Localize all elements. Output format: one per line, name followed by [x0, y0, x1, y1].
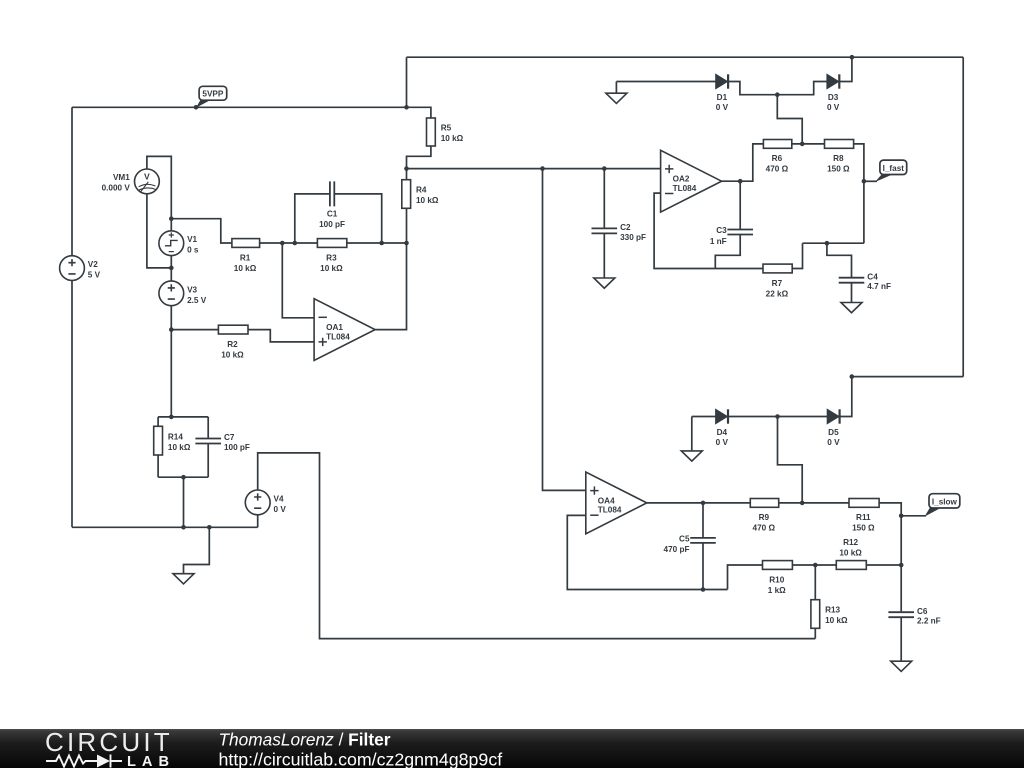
- wire 5VPP net: left horizontal run at y=107: [72, 106, 407, 108]
- wire D1 anode from ground: [616, 81, 715, 83]
- wire C3 top stub from OA2 output node: [739, 181, 741, 229]
- svg-text:10 kΩ: 10 kΩ: [221, 350, 244, 359]
- svg-text:470 Ω: 470 Ω: [766, 165, 789, 174]
- svg-text:470 Ω: 470 Ω: [753, 524, 776, 533]
- svg-text:R5: R5: [441, 124, 452, 133]
- junction R6/R8 node: [800, 142, 805, 147]
- voltage source V2 5 V: [60, 256, 101, 281]
- wire V3 node rail down to R14/C7 block: [170, 330, 172, 417]
- svg-text:R8: R8: [833, 154, 844, 163]
- svg-text:V1: V1: [187, 235, 197, 244]
- junction R14/C7 block bottom: [181, 475, 186, 480]
- resistor R12 10 kΩ: [836, 538, 866, 569]
- svg-text:D1: D1: [717, 93, 728, 102]
- junction node A / C2 branch: [602, 166, 607, 171]
- junction C4 branch on R7 node line: [825, 241, 830, 246]
- svg-text:V4: V4: [274, 494, 284, 503]
- wire C6 bottom stub to ground: [900, 618, 902, 661]
- svg-text:R3: R3: [326, 253, 337, 262]
- svg-text:0 V: 0 V: [274, 505, 287, 514]
- svg-text:10 kΩ: 10 kΩ: [416, 196, 439, 205]
- svg-text:C2: C2: [620, 223, 631, 232]
- svg-text:I_fast: I_fast: [883, 164, 905, 173]
- ground at D4 anode: [681, 451, 702, 461]
- junction node A at R5 bottom / R4 top: [404, 166, 409, 171]
- diode D1 0 V: [716, 74, 729, 112]
- wire diode node feed down to R6/R8 junction: [777, 95, 802, 144]
- svg-text:10 kΩ: 10 kΩ: [825, 616, 848, 625]
- junction OA2 output / C3: [738, 179, 743, 184]
- wire V1 top stub: [170, 219, 172, 231]
- junction R10 / R12 / R13 node: [813, 563, 818, 568]
- op-amp OA1 TL084: [314, 299, 375, 361]
- junction C1 right / R3 output: [379, 241, 384, 246]
- svg-text:C7: C7: [224, 433, 235, 442]
- resistor R14 10 kΩ: [154, 426, 191, 455]
- svg-text:TL084: TL084: [326, 332, 350, 341]
- capacitor C2 330 pF: [592, 223, 647, 242]
- junction OA4 output / C5: [701, 501, 706, 506]
- wire C4 branch jog from node line: [827, 243, 852, 277]
- svg-text:VM1: VM1: [113, 173, 130, 182]
- svg-text:4.7 nF: 4.7 nF: [867, 282, 891, 291]
- voltage source V1 0 s (step): [159, 231, 199, 256]
- wire branch from top rail down to D3 cathode: [840, 57, 852, 81]
- svg-text:R9: R9: [759, 513, 770, 522]
- wire R1 output to R3 input: [260, 242, 318, 244]
- svg-text:10 kΩ: 10 kΩ: [168, 443, 191, 452]
- wire C5 top stub from OA4 output node: [702, 503, 704, 538]
- wire V3 bottom stub to R2 node: [170, 306, 172, 330]
- svg-text:0 V: 0 V: [716, 103, 729, 112]
- junction V3 bottom / R2 node: [169, 327, 174, 332]
- junction C5 bottom on feedback loop: [701, 587, 706, 592]
- CircuitLab logo resistor-diode glyph: [46, 755, 122, 768]
- resistor R11 150 Ω: [849, 499, 879, 533]
- wire R14 top stub: [157, 417, 159, 426]
- footer bar: [0, 729, 1024, 768]
- svg-text:V3: V3: [187, 285, 197, 294]
- svg-text:470 pF: 470 pF: [664, 545, 690, 554]
- svg-text:150 Ω: 150 Ω: [852, 524, 875, 533]
- wire C1 left branch up from R1/R3 node: [295, 194, 330, 243]
- wire OA2 output to R6 input: [722, 144, 764, 181]
- junction R1 output / OA1 inverting branch: [280, 241, 285, 246]
- svg-text:5VPP: 5VPP: [202, 90, 223, 99]
- svg-text:R2: R2: [227, 340, 238, 349]
- svg-text:1 kΩ: 1 kΩ: [768, 586, 786, 595]
- wire C3 bottom jog to feedback loop: [715, 234, 740, 268]
- resistor R3 10 kΩ: [317, 239, 346, 273]
- ground on V2 rail below R14/C7 block: [173, 574, 194, 584]
- wire I_slow tail stub: [901, 515, 926, 517]
- junction 5VPP tag point: [194, 105, 199, 110]
- op-amp OA2 TL084: [661, 150, 722, 212]
- svg-text:http://circuitlab.com/cz2gnm4g: http://circuitlab.com/cz2gnm4g8p9cf: [219, 750, 503, 768]
- wire V3 top stub: [170, 268, 172, 281]
- diode D4 0 V: [716, 409, 729, 447]
- svg-text:V: V: [144, 172, 150, 182]
- capacitor C5 470 pF: [664, 535, 716, 555]
- svg-text:R12: R12: [843, 538, 858, 547]
- node I_slow net flag: [925, 494, 960, 517]
- wire R7 output jog up to C4 node line: [792, 243, 802, 268]
- wire R8 output down past I_fast node to C4 line: [854, 144, 864, 243]
- wire ground branch jog from rail: [184, 527, 210, 573]
- svg-text:0 V: 0 V: [827, 438, 840, 447]
- wire riser from 5VPP junction up to top rail: [406, 57, 408, 107]
- svg-text:OA2: OA2: [673, 175, 690, 184]
- wire C4 bottom stub to ground: [851, 283, 853, 303]
- wire V1 bottom stub: [170, 256, 172, 268]
- junction block drop on ground rail: [181, 525, 186, 530]
- junction VM1 bottom / V1-V3 node: [169, 266, 174, 271]
- wire OA1 inverting input branch: [282, 243, 314, 318]
- svg-text:D3: D3: [828, 93, 839, 102]
- svg-text:LAB: LAB: [127, 754, 175, 768]
- svg-text:R7: R7: [772, 279, 783, 288]
- wire C2 bottom stub to ground: [603, 233, 605, 278]
- wire V4 bottom stub to ground rail: [257, 515, 259, 527]
- svg-text:0 V: 0 V: [716, 438, 729, 447]
- wire D4 ground stub: [691, 417, 693, 451]
- wire R11 output down right side to C6: [879, 503, 901, 612]
- junction R3 / R4 / OA1 output node: [404, 241, 409, 246]
- svg-text:0 V: 0 V: [827, 103, 840, 112]
- wire I_fast tail stub: [864, 180, 877, 182]
- wire D4 anode from ground: [692, 416, 716, 418]
- wire R5 top feed from 5VPP junction: [407, 107, 431, 118]
- svg-text:22 kΩ: 22 kΩ: [766, 289, 789, 298]
- svg-text:D5: D5: [828, 428, 839, 437]
- wire R10 output to R12 input: [792, 564, 836, 566]
- junction ground branch on rail: [207, 525, 212, 530]
- wire D4 cathode to D5 anode: [728, 416, 827, 418]
- wire diode node feed down to R9/R11 junction: [778, 417, 803, 503]
- ground at D1 anode: [606, 93, 627, 103]
- wire R4 top stub: [406, 169, 408, 180]
- capacitor C7 100 pF: [195, 433, 250, 452]
- wire feedback loop up to R10 input: [728, 565, 763, 590]
- wire ground rail at y=527 from left rail to V4: [72, 526, 258, 528]
- svg-text:OA4: OA4: [598, 496, 615, 505]
- svg-text:2.5 V: 2.5 V: [187, 296, 207, 305]
- wire OA4 output to R9 input: [647, 502, 751, 504]
- wire R5 bottom jog to node A rail: [407, 146, 431, 169]
- svg-text:2.2 nF: 2.2 nF: [917, 617, 941, 626]
- wire R2 input from V3 node: [171, 329, 218, 331]
- svg-text:C5: C5: [679, 535, 690, 544]
- wire OA1 output up to R3/R4 junction: [375, 243, 406, 330]
- wire V4 top lead loop to bottom rail: [258, 453, 816, 639]
- svg-text:150 Ω: 150 Ω: [827, 165, 850, 174]
- wire R3 output to R4 junction: [347, 242, 407, 244]
- wire R14/C7 block bottom bar: [158, 476, 208, 478]
- wire R12 output to C6 node: [866, 564, 901, 566]
- ground below C2: [594, 278, 615, 288]
- svg-text:R11: R11: [856, 513, 871, 522]
- wire D1 cathode jog to D3 anode: [728, 82, 827, 95]
- svg-text:ThomasLorenz / Filter: ThomasLorenz / Filter: [219, 729, 391, 749]
- junction 5VPP / R5 riser: [404, 105, 409, 110]
- svg-text:TL084: TL084: [673, 184, 697, 193]
- junction I_slow node: [899, 514, 904, 519]
- svg-text:10 kΩ: 10 kΩ: [320, 264, 343, 273]
- svg-text:C1: C1: [327, 210, 338, 219]
- wire R13 bottom stub to bottom rail: [814, 628, 816, 638]
- wire C1 right branch down to R3 line: [334, 194, 381, 243]
- resistor R6 470 Ω: [763, 140, 791, 174]
- svg-text:R4: R4: [416, 186, 427, 195]
- junction D4-D5 midpoint node: [775, 414, 780, 419]
- svg-text:100 pF: 100 pF: [224, 443, 250, 452]
- wire R4 bottom stub to R3 output junction: [406, 208, 408, 243]
- svg-text:TL084: TL084: [598, 506, 622, 515]
- svg-text:I_slow: I_slow: [932, 497, 958, 506]
- wire right rail lower horizontal toward D5: [852, 376, 963, 378]
- wire C2 top stub from node A: [603, 169, 605, 229]
- wire jog from V1 node to R1 input: [171, 219, 232, 243]
- wire C7 top stub: [207, 417, 209, 438]
- op-amp OA4 TL084: [586, 472, 647, 534]
- svg-text:1 nF: 1 nF: [710, 237, 727, 246]
- junction D1-D3 midpoint node: [775, 92, 780, 97]
- svg-text:OA1: OA1: [326, 323, 343, 332]
- wire node A horizontal to OA2 + input: [407, 168, 661, 170]
- wire V2 top lead on left rail: [71, 107, 73, 256]
- junction VM1 / V1 / R1 node: [169, 216, 174, 221]
- wire R2 output jog to OA1 + input: [248, 330, 314, 342]
- svg-text:CIRCUIT: CIRCUIT: [45, 727, 173, 757]
- resistor R10 1 kΩ: [763, 561, 793, 595]
- svg-text:R14: R14: [168, 432, 183, 441]
- wire top rail at y=57: [407, 56, 964, 58]
- svg-text:R13: R13: [825, 606, 840, 615]
- wire C4 node line: [803, 242, 864, 244]
- voltage source V4 0 V: [245, 490, 286, 515]
- resistor R1 10 kΩ: [232, 239, 260, 273]
- wire C5 bottom stub to feedback loop: [702, 543, 704, 590]
- wire R14/C7 block top bar: [158, 416, 208, 418]
- svg-text:10 kΩ: 10 kΩ: [234, 264, 257, 273]
- capacitor C6 2.2 nF: [888, 607, 940, 626]
- capacitor C4 4.7 nF: [839, 272, 891, 291]
- svg-text:R1: R1: [240, 253, 251, 262]
- junction node A / OA4 branch: [540, 166, 545, 171]
- wire R6 output to R8 input: [792, 143, 825, 145]
- svg-text:R6: R6: [772, 154, 783, 163]
- svg-text:10 kΩ: 10 kΩ: [441, 134, 464, 143]
- ground below C6: [891, 661, 912, 671]
- junction right rail corner above D5: [850, 374, 855, 379]
- svg-text:C6: C6: [917, 607, 928, 616]
- wire right rail down the page: [962, 57, 964, 376]
- diode D5 0 V: [827, 409, 840, 447]
- resistor R2 10 kΩ: [218, 325, 248, 359]
- svg-text:0 s: 0 s: [187, 246, 199, 255]
- svg-text:330 pF: 330 pF: [620, 233, 646, 242]
- capacitor C3 1 nF: [710, 226, 753, 246]
- wire D1 ground stub: [615, 82, 617, 94]
- wire node A branch down to OA4 + input: [543, 169, 586, 491]
- resistor R5 10 kΩ: [427, 118, 464, 146]
- resistor R13 10 kΩ: [811, 600, 848, 629]
- wire block bottom drop to ground rail: [183, 477, 185, 527]
- resistor R7 22 kΩ: [763, 264, 792, 298]
- wire V2 bottom lead down left rail: [71, 281, 73, 528]
- resistor R8 150 Ω: [825, 140, 854, 174]
- svg-text:D4: D4: [717, 428, 728, 437]
- wire OA4 inverting feedback loop: [567, 515, 727, 589]
- node 5VPP net flag: [196, 86, 227, 108]
- wire VM1 top loop over to V1 node: [147, 156, 171, 218]
- resistor R9 470 Ω: [750, 499, 778, 533]
- wire VM1 bottom lead to V1/V3 junction: [147, 194, 171, 268]
- wire OA2 inverting feedback loop: [654, 193, 763, 268]
- svg-text:100 pF: 100 pF: [319, 220, 345, 229]
- ground below C4: [841, 303, 862, 313]
- junction I_fast node: [862, 179, 867, 184]
- wire drop from right rail corner to D5 cathode: [840, 377, 852, 417]
- junction R12 output / C6 node: [899, 563, 904, 568]
- wire C7 bottom stub: [207, 444, 209, 477]
- wire R13 top stub to R10/R12 node: [814, 565, 816, 600]
- svg-text:0.000 V: 0.000 V: [102, 183, 131, 192]
- resistor R4 10 kΩ: [402, 180, 439, 209]
- node I_fast net flag: [875, 160, 907, 182]
- voltmeter VM1 0.000 V: [102, 169, 160, 194]
- junction C1 left / R3 input: [293, 241, 298, 246]
- capacitor C1 100 pF: [319, 181, 345, 229]
- svg-text:C3: C3: [716, 226, 727, 235]
- svg-text:5 V: 5 V: [88, 271, 101, 280]
- svg-text:10 kΩ: 10 kΩ: [839, 549, 862, 558]
- wire R9 output to R11 input: [779, 502, 849, 504]
- svg-text:V2: V2: [88, 260, 98, 269]
- svg-text:C4: C4: [867, 272, 878, 281]
- junction R14/C7 block top: [169, 415, 174, 420]
- svg-text:R10: R10: [769, 575, 784, 584]
- junction R9/R11 node: [800, 501, 805, 506]
- voltage source V3 2.5 V: [159, 281, 207, 306]
- junction top rail / D3 branch: [850, 55, 855, 60]
- diode D3 0 V: [827, 74, 840, 112]
- wire R14 bottom stub: [157, 455, 159, 477]
